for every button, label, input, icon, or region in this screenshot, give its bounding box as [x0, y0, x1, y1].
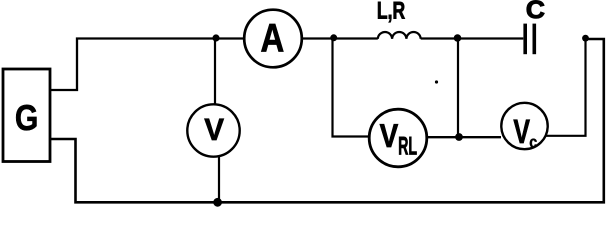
- svg-text:L,R: L,R: [377, 0, 405, 25]
- svg-text:G: G: [15, 97, 39, 138]
- svg-text:V: V: [204, 112, 224, 147]
- svg-text:V: V: [380, 117, 399, 154]
- svg-text:C: C: [526, 0, 545, 24]
- svg-text:V: V: [513, 113, 530, 151]
- svg-text:A: A: [261, 16, 285, 60]
- svg-text:RL: RL: [398, 133, 417, 161]
- svg-text:c: c: [529, 134, 537, 152]
